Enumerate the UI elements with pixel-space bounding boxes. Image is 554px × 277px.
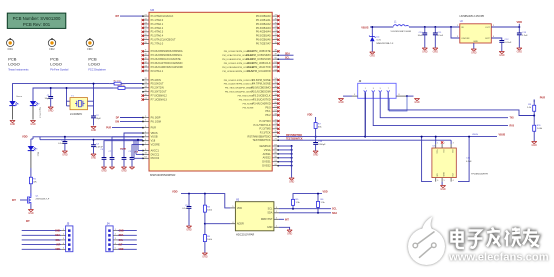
svg-text:11: 11: [145, 57, 147, 59]
svg-text:P1.6/TA1CLK/CBOUT: P1.6/TA1CLK/CBOUT: [151, 38, 176, 42]
svg-text:13: 13: [145, 82, 147, 84]
svg-text:PJ.1/TDI/TCLK: PJ.1/TDI/TCLK: [253, 123, 270, 127]
svg-text:AVSS2: AVSS2: [263, 156, 272, 160]
svg-text:SDA: SDA: [285, 53, 290, 56]
svg-text:PM_NONE: PM_NONE: [243, 107, 254, 109]
svg-text:GEN/PAD: GEN/PAD: [259, 144, 270, 148]
svg-text:VDD: VDD: [119, 249, 124, 251]
svg-text:91: 91: [275, 160, 277, 162]
svg-text:BYP: BYP: [485, 38, 490, 40]
svg-text:0.1uF: 0.1uF: [438, 35, 444, 37]
svg-text:92: 92: [275, 164, 277, 166]
svg-text:23: 23: [145, 22, 147, 24]
svg-text:PU.0/DP: PU.0/DP: [151, 115, 161, 119]
svg-text:49: 49: [275, 54, 277, 56]
svg-text:P7.1/CB9/A13: P7.1/CB9/A13: [151, 97, 168, 101]
svg-text:60: 60: [275, 102, 277, 104]
svg-text:18: 18: [145, 153, 147, 155]
svg-text:LOGO: LOGO: [8, 61, 20, 66]
svg-text:12: 12: [145, 78, 147, 80]
svg-text:3: 3: [276, 217, 277, 219]
svg-text:P6.3/CB3/A3: P6.3/CB3/A3: [256, 26, 271, 30]
svg-text:P5.3/XT2OUT: P5.3/XT2OUT: [151, 90, 167, 94]
svg-text:GND: GND: [101, 170, 107, 173]
svg-text:74: 74: [275, 26, 277, 28]
svg-text:PUR: PUR: [106, 128, 111, 130]
svg-text:GND: GND: [30, 123, 36, 126]
svg-text:0.1uF: 0.1uF: [182, 208, 188, 210]
svg-text:GND: GND: [422, 51, 428, 54]
svg-text:P3.2/UCB0CLK/UCA0STE: P3.2/UCB0CLK/UCA0STE: [151, 57, 181, 61]
svg-text:27: 27: [145, 38, 147, 40]
svg-text:4: 4: [145, 139, 146, 141]
svg-text:2: 2: [63, 234, 64, 236]
svg-text:P6.2/CB2/A2: P6.2/CB2/A2: [256, 22, 271, 26]
svg-text:PCB Rev: 001: PCB Rev: 001: [23, 22, 51, 27]
svg-text:PJ.3/TCK: PJ.3/TCK: [260, 131, 271, 135]
svg-text:VBUS: VBUS: [499, 134, 506, 137]
svg-text:SDA: SDA: [55, 234, 60, 237]
svg-text:P7.0/CB8/A12: P7.0/CB8/A12: [151, 94, 168, 98]
svg-text:P8.0: P8.0: [265, 105, 271, 109]
svg-text:VBUS: VBUS: [151, 131, 158, 135]
svg-text:4: 4: [232, 222, 233, 224]
svg-text:P1.2/TA0.1: P1.2/TA0.1: [151, 22, 164, 26]
svg-text:57: 57: [275, 110, 277, 112]
svg-text:17: 17: [145, 98, 147, 100]
svg-text:PM_TB0OUTH: PM_TB0OUTH: [239, 99, 254, 101]
svg-text:PM_UCB0STE/PM_UCA0CLK: PM_UCB0STE/PM_UCA0CLK: [224, 50, 254, 53]
svg-text:OUT: OUT: [485, 27, 490, 29]
svg-text:P5.2/XT2IN: P5.2/XT2IN: [151, 86, 164, 90]
svg-text:TPD4E004DRYR: TPD4E004DRYR: [471, 174, 488, 176]
svg-text:1.00k: 1.00k: [537, 128, 543, 130]
svg-text:5: 5: [232, 206, 233, 208]
svg-text:P4.7/PM_NONE: P4.7/PM_NONE: [252, 82, 271, 86]
svg-text:LP2985AIM5-3.3/NOPB: LP2985AIM5-3.3/NOPB: [460, 15, 485, 18]
svg-text:VDD: VDD: [237, 207, 242, 210]
svg-text:GND: GND: [442, 172, 444, 177]
svg-text:GND: GND: [91, 129, 97, 132]
svg-text:0.1uF: 0.1uF: [466, 161, 472, 163]
svg-text:P3.3/UCA0TXD/UCA0SIMO: P3.3/UCA0TXD/UCA0SIMO: [151, 61, 183, 65]
svg-text:GND: GND: [62, 154, 68, 157]
svg-text:GND: GND: [28, 212, 34, 215]
svg-text:GND: GND: [338, 101, 344, 104]
svg-text:2N7002W-7-F: 2N7002W-7-F: [36, 199, 50, 201]
svg-text:P3.1/UCB0SOMI/UCB0SCL: P3.1/UCB0SOMI/UCB0SCL: [151, 53, 183, 57]
svg-text:VDD: VDD: [307, 114, 312, 117]
svg-text:50: 50: [275, 57, 277, 59]
svg-text:P6.4/CB4/A4: P6.4/CB4/A4: [256, 30, 271, 34]
svg-text:GND: GND: [433, 51, 439, 54]
svg-text:58: 58: [275, 113, 277, 115]
svg-text:FID2: FID2: [49, 48, 55, 51]
svg-text:51: 51: [275, 61, 277, 63]
svg-text:P8.1: P8.1: [265, 109, 271, 113]
svg-text:DVSS2: DVSS2: [262, 164, 271, 168]
svg-text:5: 5: [145, 126, 146, 128]
svg-text:8: 8: [145, 149, 146, 151]
svg-text:ON/OFF: ON/OFF: [461, 38, 470, 40]
svg-text:VUSB: VUSB: [120, 149, 126, 151]
svg-text:89: 89: [275, 152, 277, 154]
svg-text:LOGO: LOGO: [88, 61, 100, 66]
svg-text:U3: U3: [151, 8, 155, 12]
svg-text:P6.1/CB1/A1: P6.1/CB1/A1: [256, 18, 271, 22]
svg-text:VBUS: VBUS: [361, 25, 368, 29]
svg-text:52: 52: [275, 65, 277, 67]
svg-text:6: 6: [437, 180, 438, 182]
svg-text:64: 64: [145, 157, 147, 159]
svg-text:INT: INT: [12, 199, 16, 202]
svg-text:VDD: VDD: [323, 190, 328, 193]
svg-text:SCL: SCL: [268, 208, 273, 211]
svg-text:SCL: SCL: [119, 240, 124, 242]
svg-text:57: 57: [275, 90, 277, 92]
svg-text:70: 70: [275, 42, 277, 44]
svg-text:INT: INT: [285, 218, 289, 221]
svg-text:GND: GND: [440, 188, 446, 191]
svg-text:VDD: VDD: [517, 20, 523, 24]
svg-text:Blue: Blue: [36, 152, 38, 157]
svg-text:Super Red: Super Red: [39, 107, 42, 118]
svg-text:ADDR: ADDR: [237, 223, 244, 226]
svg-text:2.2uF: 2.2uF: [522, 35, 528, 37]
svg-text:PM_TB0CCR2A: PM_TB0CCR2A: [238, 95, 254, 98]
svg-text:5.1V: 5.1V: [377, 40, 382, 42]
svg-text:GND: GND: [186, 229, 192, 232]
svg-text:73: 73: [275, 123, 277, 125]
svg-text:77: 77: [275, 14, 277, 16]
svg-text:3: 3: [457, 36, 458, 38]
svg-text:R3 150: R3 150: [118, 85, 126, 87]
svg-text:P5.4/XIN: P5.4/XIN: [151, 78, 161, 82]
svg-text:VDD: VDD: [55, 249, 60, 251]
svg-text:5: 5: [380, 88, 381, 90]
svg-text:25: 25: [145, 30, 147, 32]
svg-text:73: 73: [275, 30, 277, 32]
svg-text:71: 71: [275, 139, 277, 141]
svg-text:PM_UCA1STE/PM_UCB1CLK: PM_UCA1STE/PM_UCB1CLK: [224, 83, 254, 86]
svg-text:INT: INT: [119, 245, 123, 247]
svg-text:P3.4/UCA0RXD/UCA0SOMI: P3.4/UCA0RXD/UCA0SOMI: [151, 65, 183, 69]
svg-text:FID1: FID1: [8, 48, 14, 51]
svg-text:V18: V18: [151, 139, 156, 143]
svg-text:4: 4: [115, 243, 116, 245]
svg-text:PUR: PUR: [151, 126, 157, 130]
svg-text:SDA: SDA: [267, 212, 272, 215]
svg-text:58: 58: [275, 94, 277, 96]
svg-text:88: 88: [275, 148, 277, 150]
svg-text:26: 26: [145, 34, 147, 36]
svg-text:15: 15: [145, 90, 147, 92]
svg-text:1: 1: [437, 143, 438, 145]
svg-text:P1.0/TA0CLK/ACLK: P1.0/TA0CLK/ACLK: [151, 14, 174, 18]
svg-text:48: 48: [275, 50, 277, 52]
svg-text:VDD: VDD: [22, 135, 28, 139]
svg-text:GND: GND: [287, 233, 293, 236]
svg-text:GND: GND: [91, 157, 97, 160]
svg-text:16pF: 16pF: [96, 118, 102, 120]
svg-text:53: 53: [275, 69, 277, 71]
svg-text:FID3: FID3: [87, 48, 93, 51]
svg-text:P1.4/TA0.3: P1.4/TA0.3: [151, 30, 164, 34]
svg-text:PM_UCB0SIMO/PM_UCB0SDA: PM_UCB0SIMO/PM_UCB0SDA: [222, 66, 254, 69]
svg-text:GND: GND: [532, 144, 538, 147]
svg-text:Texas Instruments: Texas Instruments: [8, 68, 29, 71]
svg-text:16pF: 16pF: [45, 98, 51, 100]
svg-text:76: 76: [275, 135, 277, 137]
svg-text:P1.3/TA0.2: P1.3/TA0.2: [151, 26, 164, 30]
svg-text:2: 2: [145, 116, 146, 118]
svg-text:3: 3: [115, 238, 116, 240]
svg-text:FCC Disclaimer: FCC Disclaimer: [88, 68, 106, 71]
svg-text:2: 2: [276, 225, 277, 227]
svg-text:5: 5: [115, 248, 116, 250]
svg-text:INT: INT: [56, 245, 60, 247]
svg-text:59: 59: [275, 98, 277, 100]
svg-text:VLS201610ET-100M: VLS201610ET-100M: [391, 31, 411, 33]
svg-text:3: 3: [63, 238, 64, 240]
svg-text:P3.3/UCA0TXD: P3.3/UCA0TXD: [253, 97, 271, 101]
svg-text:1: 1: [276, 211, 277, 213]
svg-text:13: 13: [145, 65, 147, 67]
svg-text:VCORE: VCORE: [151, 143, 160, 147]
svg-text:22: 22: [145, 18, 147, 20]
svg-text:P2.0/TA1.1: P2.0/TA1.1: [151, 69, 164, 73]
svg-text:4: 4: [63, 243, 64, 245]
svg-text:75: 75: [275, 131, 277, 133]
svg-text:LOGO: LOGO: [50, 61, 62, 66]
svg-text:VSSA: VSSA: [264, 148, 271, 152]
svg-text:14: 14: [145, 69, 147, 71]
svg-text:10uF: 10uF: [418, 35, 424, 37]
svg-text:6: 6: [145, 135, 146, 137]
svg-text:7: 7: [145, 143, 146, 145]
svg-text:P3.0/UCB0SIMO/UCB0SDA: P3.0/UCB0SIMO/UCB0SDA: [151, 49, 183, 53]
svg-text:24.000MHz: 24.000MHz: [70, 113, 83, 116]
svg-text:71: 71: [275, 38, 277, 40]
svg-text:GND: GND: [517, 51, 523, 54]
svg-text:MSP430F5529IPNR: MSP430F5529IPNR: [150, 173, 175, 177]
svg-text:AVSS1: AVSS1: [263, 152, 272, 156]
svg-text:DVSS1: DVSS1: [262, 160, 271, 164]
svg-text:7: 7: [388, 88, 389, 90]
svg-text:VCC: VCC: [436, 150, 438, 155]
svg-text:PJ.0/TDO: PJ.0/TDO: [259, 119, 270, 123]
svg-text:1: 1: [365, 88, 366, 90]
svg-text:R2 150: R2 150: [114, 80, 122, 82]
svg-text:PU.1/DM: PU.1/DM: [151, 119, 161, 123]
svg-text:PM_UCB0SOMI/PM_UCB0SCL: PM_UCB0SOMI/PM_UCB0SCL: [222, 71, 254, 73]
svg-text:RST/NMI/SBWTDIO: RST/NMI/SBWTDIO: [248, 135, 271, 139]
svg-text:1: 1: [115, 229, 116, 231]
svg-text:SCL: SCL: [55, 240, 60, 242]
svg-text:6: 6: [276, 207, 277, 209]
svg-text:SCL: SCL: [285, 58, 290, 60]
svg-text:0.1uF: 0.1uF: [58, 143, 64, 145]
svg-text:P4.6/PM_NONE: P4.6/PM_NONE: [252, 78, 271, 82]
svg-text:16: 16: [145, 94, 147, 96]
svg-text:72: 72: [275, 34, 277, 36]
svg-text:www.elecfans.com: www.elecfans.com: [448, 252, 549, 264]
svg-text:VDD: VDD: [172, 190, 178, 194]
svg-text:72: 72: [275, 119, 277, 121]
svg-text:74: 74: [275, 127, 277, 129]
svg-text:87: 87: [275, 144, 277, 146]
svg-text:28: 28: [145, 42, 147, 44]
svg-text:75: 75: [275, 22, 277, 24]
svg-text:P6.6/CB6/A6: P6.6/CB6/A6: [256, 38, 271, 42]
svg-text:DVCC2: DVCC2: [151, 156, 160, 160]
svg-text:GND: GND: [370, 55, 376, 58]
svg-text:0.01uF: 0.01uF: [505, 42, 512, 44]
svg-text:GND: GND: [267, 226, 273, 229]
svg-text:VUSB: VUSB: [151, 135, 158, 139]
svg-text:INT: INT: [26, 221, 30, 223]
svg-text:PJ.2/TMS: PJ.2/TMS: [259, 127, 270, 131]
svg-text:SCL: SCL: [332, 208, 337, 211]
svg-text:9: 9: [145, 50, 146, 52]
svg-text:VBUS: VBUS: [472, 134, 478, 136]
svg-text:Pb-Free Symbol: Pb-Free Symbol: [50, 68, 69, 71]
svg-text:GND: GND: [202, 256, 208, 259]
svg-text:GND: GND: [414, 101, 420, 104]
svg-text:GND: GND: [121, 170, 127, 173]
svg-text:DM: DM: [115, 121, 119, 123]
svg-text:INT: INT: [115, 16, 119, 18]
svg-text:12: 12: [145, 61, 147, 63]
svg-text:56: 56: [275, 86, 277, 88]
svg-text:DRDY/INT: DRDY/INT: [261, 218, 273, 221]
svg-text:P3.2/UCB0CLK: P3.2/UCB0CLK: [253, 94, 271, 98]
svg-text:TX0: TX0: [510, 118, 515, 120]
svg-text:SDA: SDA: [332, 212, 337, 215]
svg-text:4: 4: [453, 180, 454, 182]
svg-text:GND: GND: [313, 154, 319, 157]
svg-text:54: 54: [275, 78, 277, 80]
svg-text:9: 9: [354, 94, 355, 96]
svg-text:3: 3: [145, 120, 146, 122]
svg-text:PM_NONE: PM_NONE: [243, 103, 254, 105]
svg-text:90: 90: [275, 156, 277, 158]
svg-text:PM_UCB0CLK/PM_UCA0STE: PM_UCB0CLK/PM_UCA0STE: [224, 62, 254, 65]
svg-text:2200pF: 2200pF: [318, 144, 326, 146]
svg-text:1: 1: [457, 25, 458, 27]
svg-text:DP: DP: [116, 118, 120, 120]
svg-text:P8.2: P8.2: [265, 113, 271, 117]
svg-text:GND: GND: [119, 231, 124, 233]
svg-text:GND: GND: [499, 54, 505, 57]
svg-text:DVCC1: DVCC1: [151, 152, 160, 156]
svg-text:GND: GND: [10, 123, 16, 126]
svg-text:GND: GND: [48, 110, 54, 113]
svg-text:HDC2010YPAR: HDC2010YPAR: [236, 232, 254, 236]
svg-text:P3.4/UCA0RXD: P3.4/UCA0RXD: [252, 101, 270, 105]
svg-text:PM_UCA0RXD/PM_UCA0SOMI: PM_UCA0RXD/PM_UCA0SOMI: [222, 58, 254, 61]
svg-text:PCB Number: SV601300: PCB Number: SV601300: [13, 16, 61, 21]
svg-text:PUR: PUR: [540, 97, 545, 100]
svg-text:P6.0/CB0/A0: P6.0/CB0/A0: [256, 14, 271, 18]
svg-text:Green: Green: [16, 95, 23, 98]
svg-text:PM_TB0CCR1A/PM_CBOUT: PM_TB0CCR1A/PM_CBOUT: [225, 91, 254, 94]
svg-text:PM_UCA0TXD/PM_UCA0SIMO: PM_UCA0TXD/PM_UCA0SIMO: [222, 54, 254, 57]
svg-text:P3.0/UCB0SIMO: P3.0/UCB0SIMO: [251, 86, 270, 90]
svg-text:14: 14: [145, 86, 147, 88]
svg-text:5: 5: [63, 248, 64, 250]
svg-text:P1.1/TA0.0: P1.1/TA0.0: [151, 18, 164, 22]
svg-text:1: 1: [145, 131, 146, 133]
svg-text:3: 3: [453, 143, 454, 145]
svg-text:8: 8: [399, 94, 400, 96]
svg-text:GND: GND: [473, 41, 478, 43]
svg-text:2: 2: [115, 234, 116, 236]
svg-text:P6.7/CB7/A7: P6.7/CB7/A7: [256, 42, 271, 46]
svg-text:AVCC1: AVCC1: [151, 148, 160, 152]
svg-text:GND: GND: [289, 181, 295, 184]
svg-text:1: 1: [63, 229, 64, 231]
svg-text:3: 3: [373, 88, 374, 90]
svg-text:TEST/SBWTCK: TEST/SBWTCK: [252, 138, 270, 142]
svg-text:2: 2: [444, 143, 445, 145]
svg-text:5: 5: [444, 180, 445, 182]
svg-text:GND: GND: [471, 52, 477, 55]
svg-text:MMSZ5233B-7-F: MMSZ5233B-7-F: [377, 43, 394, 45]
svg-text:76: 76: [275, 18, 277, 20]
svg-text:P6.5/CB5/A5: P6.5/CB5/A5: [256, 34, 271, 38]
svg-text:P3.1/UCB0SOMI: P3.1/UCB0SOMI: [251, 90, 271, 94]
svg-text:10: 10: [145, 54, 147, 56]
svg-text:P1.7/TA1.0: P1.7/TA1.0: [151, 42, 164, 46]
svg-text:61: 61: [275, 106, 277, 108]
svg-text:RX0: RX0: [510, 126, 515, 128]
svg-text:24: 24: [145, 26, 147, 28]
svg-text:PM_UCA1CLK/PM_UCB1STE: PM_UCA1CLK/PM_UCB1STE: [224, 79, 254, 82]
svg-text:SDA: SDA: [119, 234, 124, 237]
svg-text:P5.5/XOUT: P5.5/XOUT: [151, 82, 164, 86]
svg-text:55: 55: [275, 82, 277, 84]
svg-text:21: 21: [145, 14, 147, 16]
svg-text:GND: GND: [55, 231, 60, 233]
svg-text:PM_TB0CCR0A/PM_DMAE0: PM_TB0CCR0A/PM_DMAE0: [225, 87, 254, 90]
svg-text:P1.5/TA0.4: P1.5/TA0.4: [151, 34, 164, 38]
